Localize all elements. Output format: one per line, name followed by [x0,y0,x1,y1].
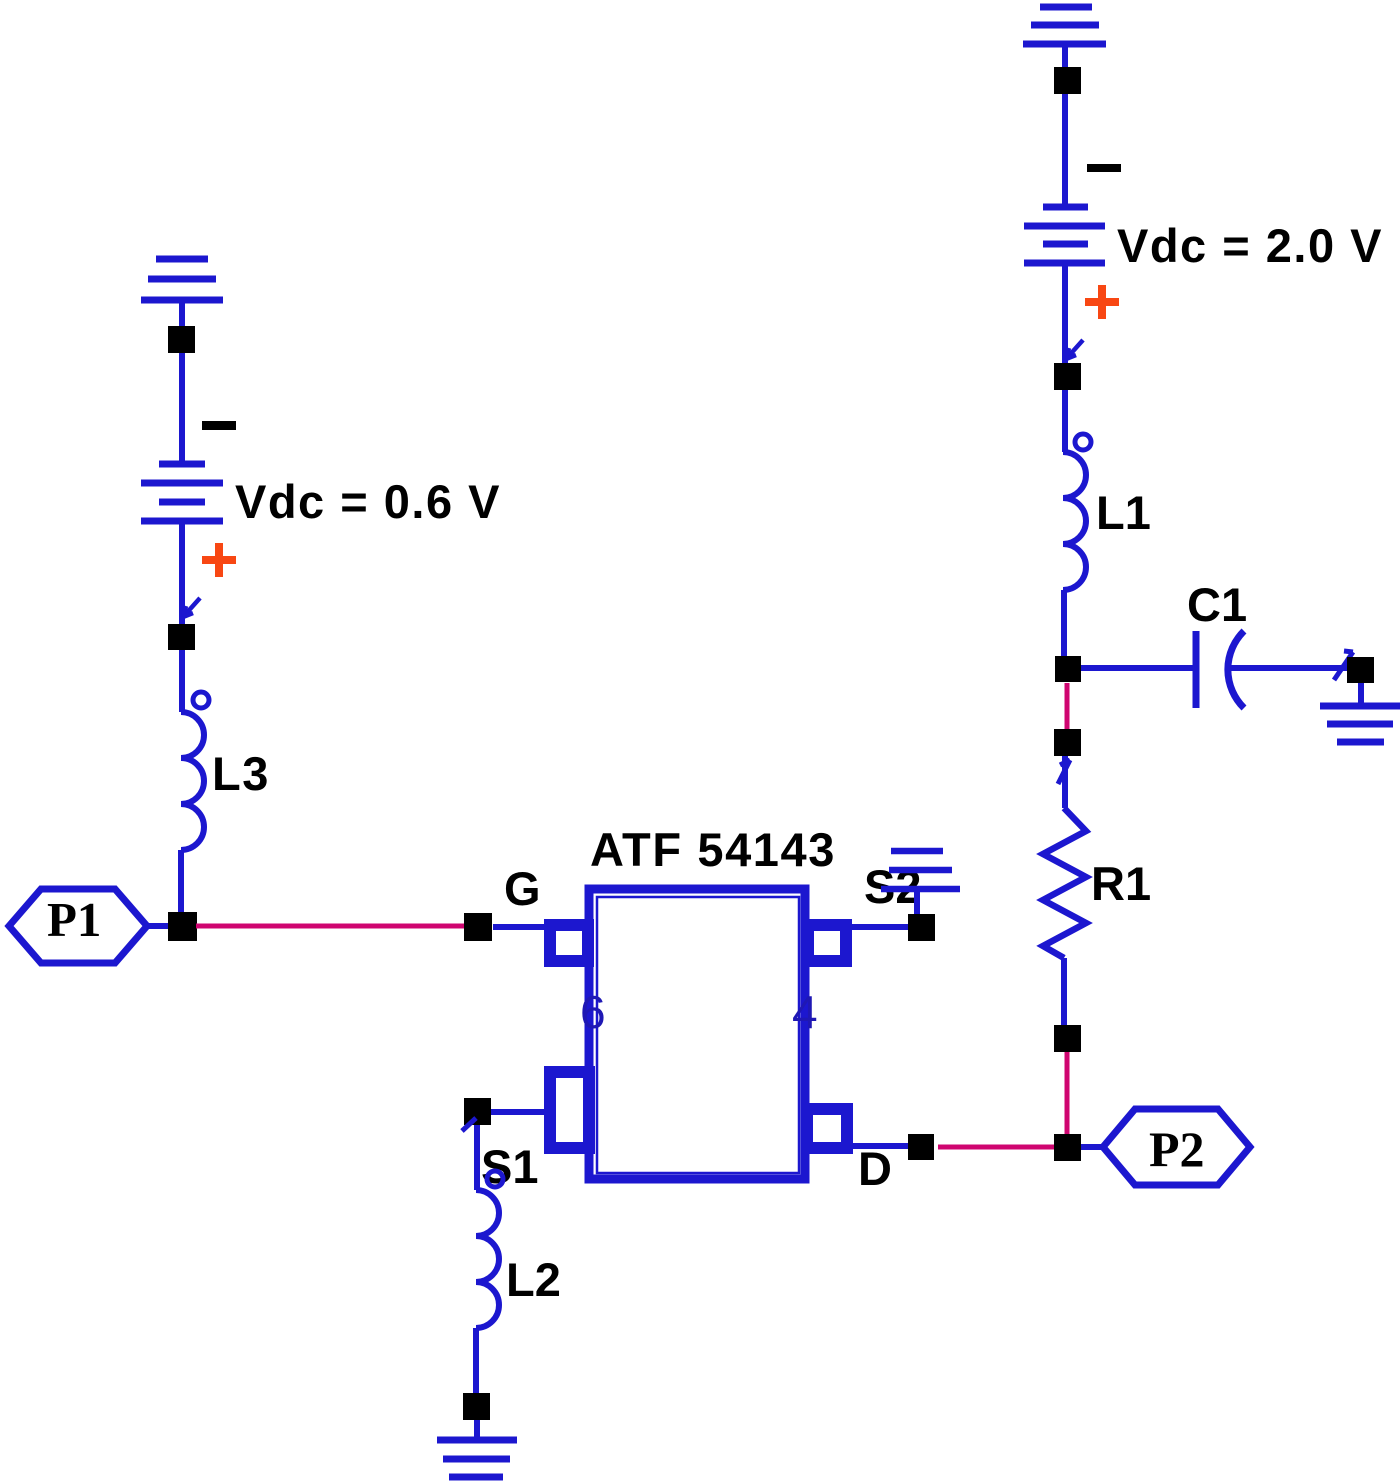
svg-text:G: G [504,862,541,915]
svg-text:P2: P2 [1149,1121,1205,1177]
wire [1062,94,1068,207]
node (top right, below ground) [1054,67,1081,94]
wire S1 node to tab [491,1109,549,1115]
pin tab D (bottom right) [807,1109,847,1148]
port P1 [9,889,147,963]
node (L2 bottom) [463,1393,490,1420]
inductor L2 terminal circle [487,1171,503,1187]
svg-text:C1: C1 [1187,578,1247,631]
wire G to package [493,924,549,930]
inductor L2 [476,1190,499,1328]
svg-text:L3: L3 [212,747,270,800]
svg-text:Vdc = 0.6 V: Vdc = 0.6 V [235,475,501,528]
svg-text:Vdc = 2.0 V: Vdc = 2.0 V [1117,219,1383,272]
node (S2) [908,914,935,941]
ground (right of C1) [1320,683,1400,742]
minus label of Vdc 0.6 [202,421,236,430]
node (top left, below ground) [168,326,195,353]
wire [1062,756,1068,808]
wire [474,1125,480,1190]
wire (magenta) D to P2 node [938,1145,1054,1150]
node (left branch, below battery) [168,624,195,650]
ground (S2, reversed) [881,851,960,914]
transistor package outline [589,889,805,1179]
node (right branch, below battery) [1054,363,1081,390]
svg-text:L2: L2 [506,1253,561,1306]
ground (top right, reversed) [1023,7,1106,70]
svg-text:D: D [858,1142,892,1195]
wire [179,353,185,464]
wire [1061,958,1067,1026]
wire stub from P1 [148,923,169,929]
svg-text:R1: R1 [1091,857,1151,910]
wire from C1 to ground node [1229,665,1349,671]
wire S2 tab to node [852,924,908,930]
arrow on wire above node [1066,340,1083,359]
wire [1061,590,1067,657]
svg-text:P1: P1 [47,892,101,947]
inductor L1 [1063,452,1086,590]
node (R1 bottom) [1054,1025,1081,1052]
arrow at S1 node [462,1118,476,1131]
port P2 [1103,1109,1250,1185]
inductor L1 terminal circle [1075,434,1091,450]
plus label of Vdc 0.6 [202,543,236,577]
svg-text:6: 6 [580,986,606,1038]
wire (magenta) P1 to G [196,924,466,929]
wire [1062,390,1068,452]
node (G) [464,913,492,941]
node (D) [908,1134,934,1160]
arrow at ground node [1334,651,1353,680]
svg-text:4: 4 [792,986,818,1038]
transistor package inner outline [597,897,799,1173]
wire [1062,263,1068,363]
wire [179,650,185,712]
minus label of Vdc 2.0 [1087,164,1121,172]
resistor R1 [1043,808,1086,958]
battery SRC1 Vdc=0.6V [141,464,223,521]
node (C1 right / ground) [1347,657,1374,683]
wire (magenta) L1 node to R1 node [1065,683,1070,731]
pin tab G (top left) [550,925,588,961]
ground (top left, reversed) [141,259,223,326]
wire [473,1328,479,1394]
battery SRC2 Vdc=2.0V [1024,207,1105,263]
wire (magenta) R1 to P2 node [1065,1052,1070,1136]
node (P2 junction) [1054,1134,1081,1161]
arrow below node pointing up [1058,760,1070,784]
wire stub to P2 [1081,1144,1103,1150]
pin tab S1 (bottom left) [550,1072,589,1148]
wire [178,850,184,913]
inductor L3 [181,712,204,850]
plus label of Vdc 2.0 [1085,285,1119,319]
capacitor C1 [1196,631,1244,708]
ground (bottom) [437,1420,517,1477]
wire D tab to node [853,1143,908,1149]
arrow on wire above node [183,598,200,617]
node (P1 junction) [168,912,197,941]
wire to C1 [1081,665,1196,671]
node (L1 bottom / C1 junction) [1055,656,1081,682]
svg-text:ATF 54143: ATF 54143 [590,823,836,876]
node (R1 top) [1054,729,1081,756]
wire [179,521,185,624]
node (S1) [464,1098,491,1125]
inductor L3 terminal circle [193,692,209,708]
pin tab S2 (top right) [808,925,846,961]
svg-text:L1: L1 [1096,486,1151,539]
